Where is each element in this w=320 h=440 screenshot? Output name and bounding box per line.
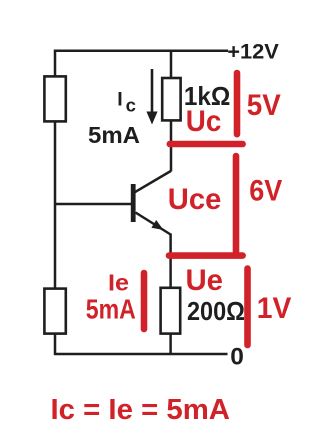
svg-text:5mA: 5mA [86, 293, 136, 324]
svg-text:I: I [117, 88, 122, 110]
svg-text:Ue: Ue [186, 264, 224, 297]
svg-text:5V: 5V [247, 89, 281, 122]
svg-text:c: c [126, 95, 136, 116]
svg-text:Ic = Ie = 5mA: Ic = Ie = 5mA [51, 394, 231, 426]
svg-text:6V: 6V [249, 175, 282, 208]
svg-text:1V: 1V [257, 292, 292, 325]
svg-text:200Ω: 200Ω [187, 296, 245, 326]
svg-text:Uce: Uce [168, 183, 222, 216]
svg-text:0: 0 [230, 344, 244, 371]
svg-text:5mA: 5mA [88, 122, 140, 148]
svg-text:+12V: +12V [227, 40, 279, 64]
svg-text:Ie: Ie [108, 270, 129, 296]
svg-text:Uc: Uc [186, 105, 222, 138]
